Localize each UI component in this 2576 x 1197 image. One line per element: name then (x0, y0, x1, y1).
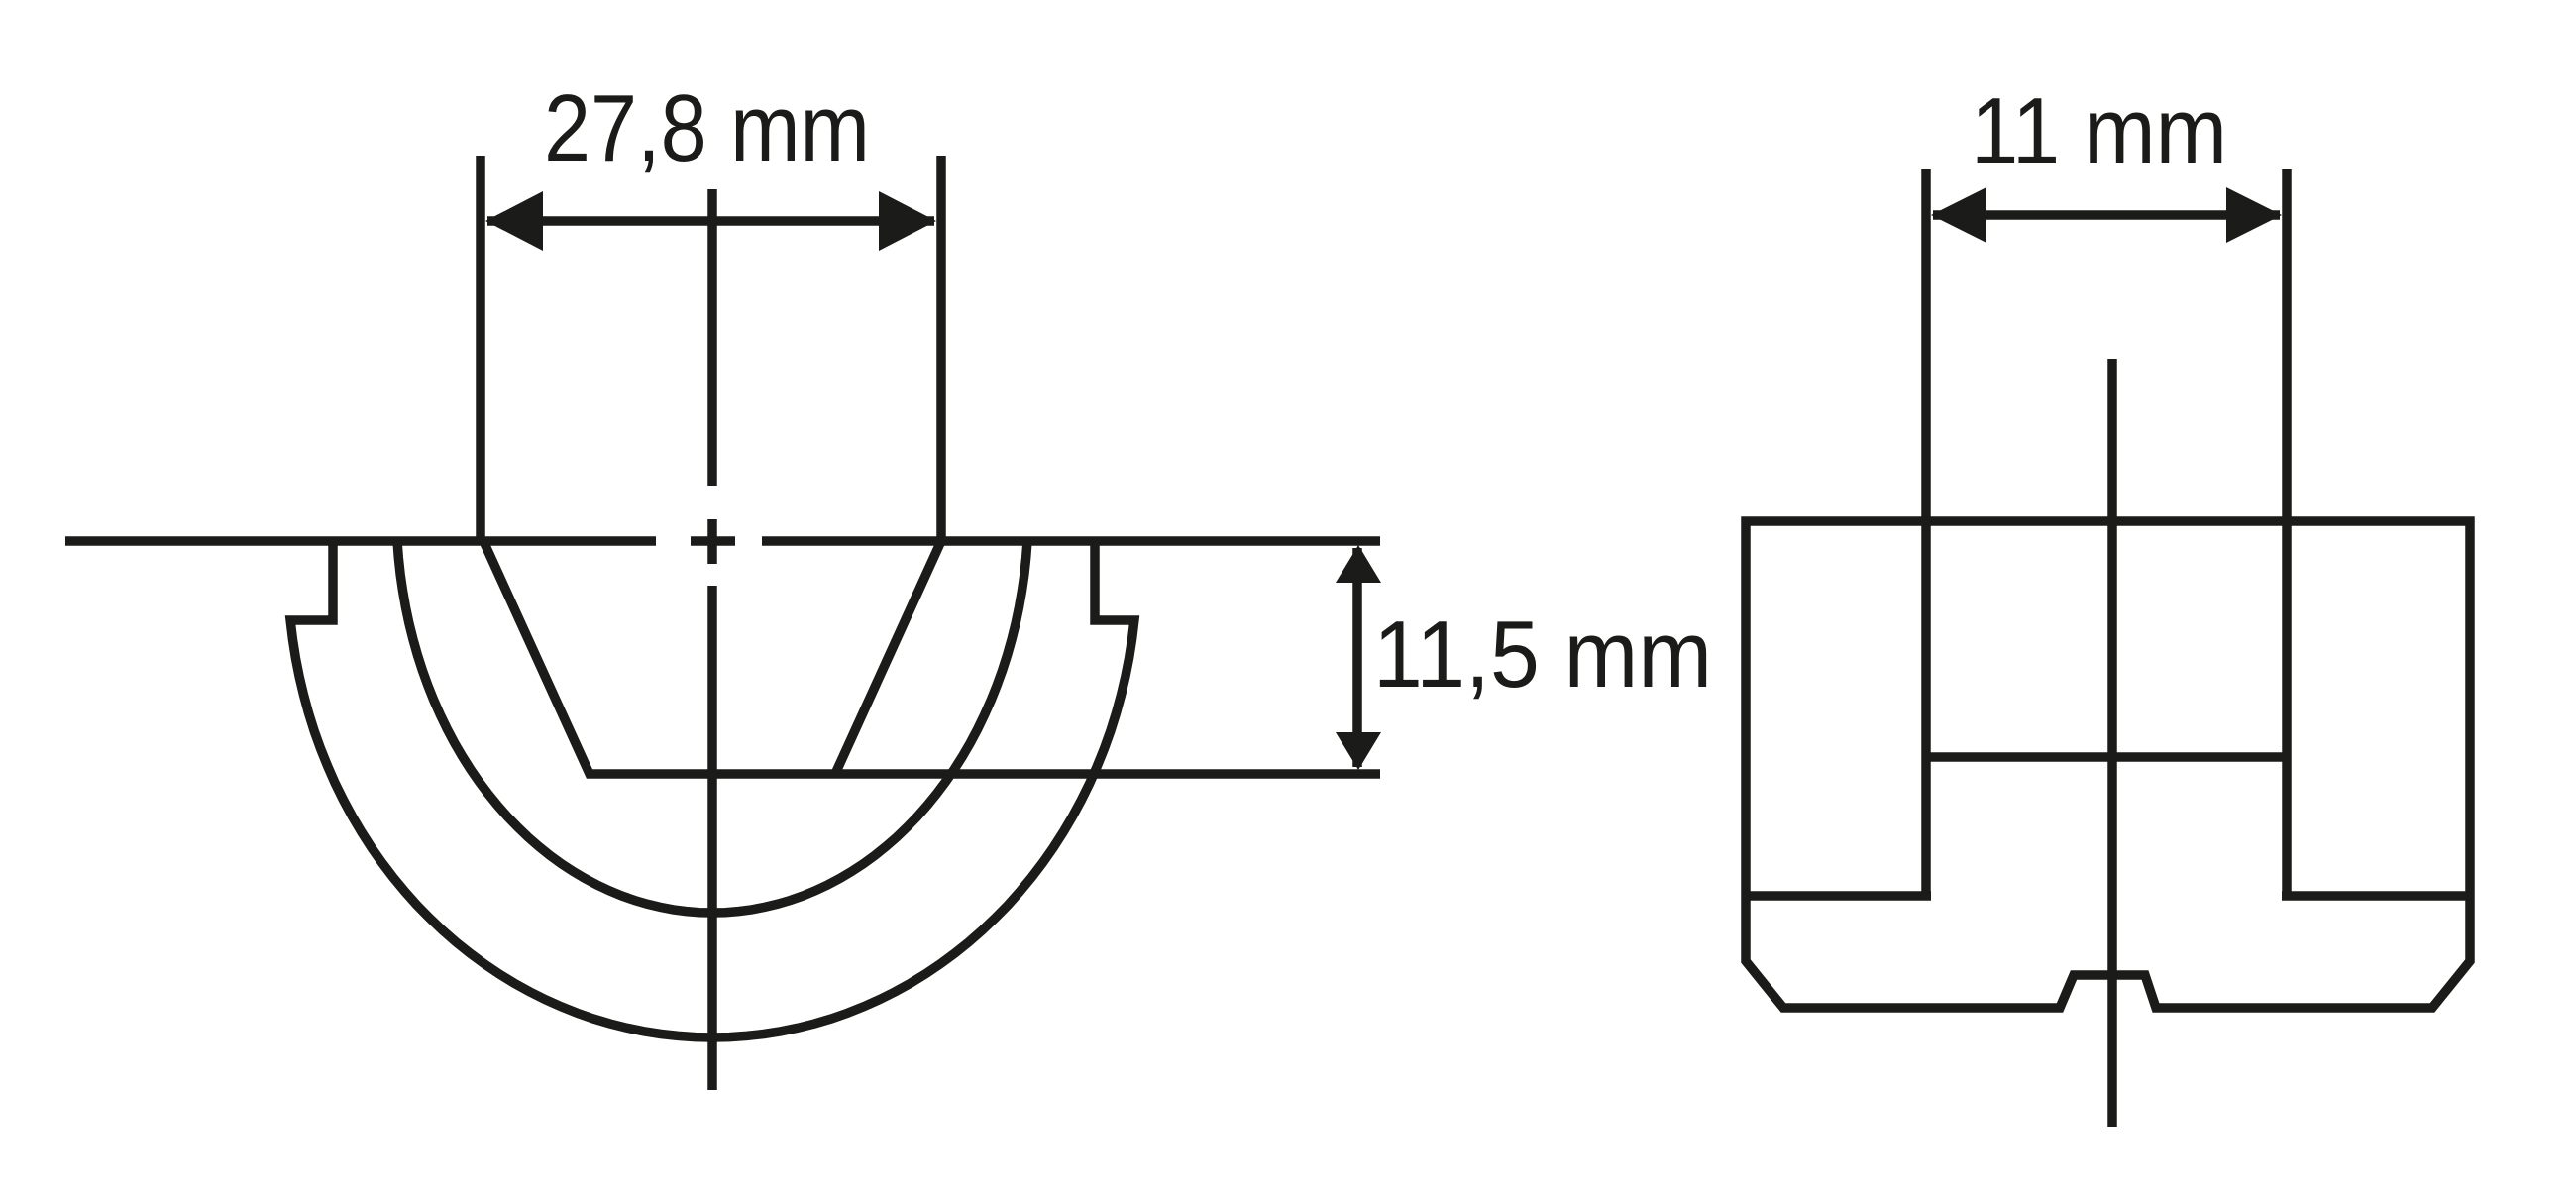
arrowhead right (27,8 mm) (879, 191, 936, 251)
arrowhead left (11 mm) (1931, 187, 1986, 243)
wing bottom edge right (2282, 891, 2470, 901)
extension line / slot wall right (11 mm) (2282, 169, 2292, 896)
dimension line 27,8 mm (487, 216, 934, 226)
dimension label 11 mm (1971, 78, 2227, 184)
cup outer wall inner arc (397, 541, 1027, 913)
dimension label 27,8 mm (544, 75, 870, 181)
arrowhead left (27,8 mm) (485, 191, 543, 251)
surface line right segment (762, 536, 1380, 546)
outer hole profile: left notch, outer arc, right notch (290, 541, 1134, 1037)
cup cavity right slant (835, 541, 941, 774)
centerline of front view (2107, 359, 2117, 1127)
extension line / slot wall left (11 mm) (1921, 169, 1931, 896)
centerline short dash at surface (707, 519, 717, 564)
surface line short dash at center (691, 536, 735, 546)
arrowhead up (11,5 mm) (1336, 545, 1381, 583)
dimension line 11 mm (1933, 210, 2280, 220)
dimension label 11,5 mm (1373, 601, 1712, 707)
cup cavity left slant and cup bottom depth line (483, 541, 1380, 774)
arrowhead down (11,5 mm) (1336, 732, 1381, 770)
extension line right (27,8 mm) (936, 156, 946, 545)
body outline with top edge, chamfers and bottom notch (1746, 521, 2470, 1008)
svg-text:27,8 mm: 27,8 mm (544, 75, 870, 181)
extension line left (27,8 mm) (476, 156, 485, 545)
svg-text:11,5 mm: 11,5 mm (1373, 601, 1712, 707)
wing bottom edge left (1746, 891, 1931, 901)
svg-text:11 mm: 11 mm (1971, 78, 2227, 184)
slot mid step edge (1926, 752, 2287, 762)
dimension line 11,5 mm (1352, 548, 1362, 767)
centerline upper segment (707, 189, 717, 486)
surface line left segment (65, 536, 656, 546)
centerline main segment (707, 586, 717, 1090)
arrowhead right (11 mm) (2226, 187, 2282, 243)
